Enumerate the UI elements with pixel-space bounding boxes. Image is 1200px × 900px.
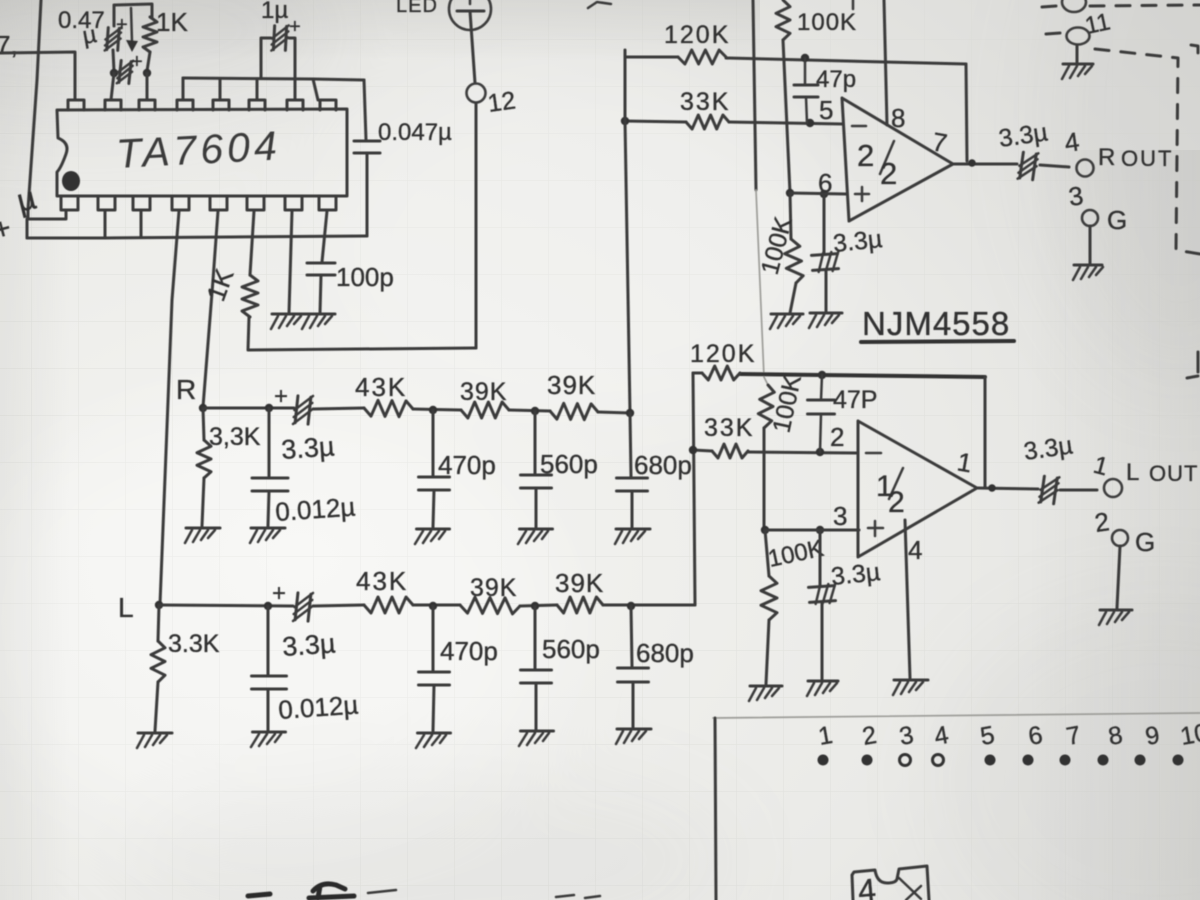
- node 560p L: [531, 602, 539, 610]
- node 470p L: [429, 602, 437, 610]
- wire 560p R drop: [534, 411, 537, 474]
- svg-text:43K: 43K: [356, 566, 408, 596]
- ground below 3.3µ L: [807, 681, 838, 696]
- wire R chain seg3: [413, 409, 461, 410]
- svg-text:43K: 43K: [355, 372, 407, 402]
- ground below 470p L: [416, 733, 451, 748]
- resistor 100K L lower vertical: [765, 530, 769, 576]
- svg-text:+: +: [274, 383, 288, 410]
- capacitor electrolytic small between nodes: [117, 59, 133, 84]
- wire left-edge horizontal to pin1 top: [0, 52, 75, 100]
- capacitor 3.3µ L series electrolytic: [293, 591, 313, 623]
- resistor 3.3K L vertical: [158, 605, 159, 641]
- svg-text:OUT: OUT: [1149, 461, 1198, 486]
- wire 120K row R: [625, 56, 678, 59]
- rail bias vertical R section: [753, 0, 756, 190]
- capacitor 3.3µ L electrolytic to ground: [808, 584, 836, 605]
- svg-text:TA7604: TA7604: [115, 122, 282, 177]
- wire top bus corner down to 0.047µ: [364, 80, 366, 140]
- wire 33K row L: [693, 450, 712, 451]
- wire 470p R to ground: [433, 490, 434, 527]
- node 33K/pin2 L: [816, 448, 824, 456]
- capacitor 3.3µ R electrolytic to ground: [811, 252, 839, 273]
- svg-text:3.3µ: 3.3µ: [281, 628, 336, 662]
- resistor 120K R: [678, 50, 726, 64]
- wire stub pin5 top: [219, 79, 222, 100]
- node at 0.47µ bottom: [110, 69, 118, 77]
- svg-text:2: 2: [830, 422, 844, 452]
- svg-text:4: 4: [908, 535, 922, 565]
- resistor 1K below IC vertical: [242, 275, 258, 317]
- wire pin3 bottom to bus: [140, 211, 143, 237]
- svg-text:R: R: [176, 374, 196, 405]
- stray mark top middle: [588, 2, 611, 8]
- terminal dots row: [818, 755, 829, 766]
- wire top bus y78 pins 4-8: [183, 78, 364, 80]
- resistor 43K L: [364, 597, 413, 613]
- wire loop top of 0.47µ/1K: [114, 4, 152, 26]
- svg-text:120K: 120K: [664, 21, 730, 49]
- capacitor 47p L: [808, 399, 835, 402]
- stray stub top at x853: [852, 0, 855, 9]
- wire 100p to ground: [320, 275, 321, 313]
- svg-text:560p: 560p: [542, 634, 600, 664]
- node R input: [199, 404, 207, 412]
- wire L chain seg5: [603, 604, 695, 607]
- wire 0.47µ bottom to node: [113, 50, 114, 71]
- svg-text:1K: 1K: [156, 7, 188, 37]
- wire L chain seg3: [413, 604, 460, 607]
- dash before terminal 11: [1046, 33, 1060, 34]
- svg-text:L: L: [118, 592, 134, 623]
- wire left column L: [693, 373, 695, 605]
- dashed corner right edge lower: [1187, 352, 1198, 378]
- ground below 0.012µ R: [250, 528, 285, 543]
- wire R chain seg1: [203, 407, 294, 410]
- capacitor 680p L: [618, 667, 649, 670]
- wire L chain seg2: [313, 605, 364, 606]
- wire 560p L to ground: [535, 683, 538, 729]
- svg-text:3.3µ: 3.3µ: [832, 225, 884, 258]
- wire feedback R down to output: [966, 64, 967, 161]
- underline NJM4558: [861, 341, 1014, 342]
- capacitor 560p R: [521, 474, 552, 477]
- wire 47p stubs R: [804, 58, 807, 85]
- svg-text:120K: 120K: [690, 340, 756, 368]
- wire 47p stubs L: [821, 375, 822, 400]
- wire G R to ground: [1089, 226, 1092, 263]
- node left column 33K R: [621, 117, 629, 125]
- wire 1µ right leg to pin7 top: [289, 38, 295, 100]
- node at 1K bottom: [143, 69, 151, 77]
- svg-text:3.3µ: 3.3µ: [280, 431, 335, 465]
- wire pin5-bottom through bus to node R: [203, 211, 218, 407]
- wire 680p L to ground: [632, 682, 635, 727]
- node output R: [968, 159, 976, 167]
- capacitor 100p: [307, 262, 335, 265]
- svg-text:100K: 100K: [797, 9, 857, 36]
- svg-text:OUT: OUT: [1121, 146, 1173, 171]
- wire 3.3µ L to ground: [821, 602, 824, 679]
- resistor 120K L: [702, 366, 740, 380]
- stray dark mark bottom left: [313, 884, 345, 891]
- capacitor 47p R: [794, 84, 818, 87]
- wire pin4 L down to ground: [905, 520, 910, 678]
- arrow adjustment pointing down: [131, 8, 132, 42]
- ground below 100K L: [749, 686, 782, 701]
- ground below 560p R: [518, 529, 553, 544]
- capacitor 3.3µ L output electrolytic: [1039, 475, 1060, 505]
- capacitor 0.012µ R: [252, 477, 288, 480]
- svg-text:39K: 39K: [547, 370, 596, 400]
- svg-text:470p: 470p: [438, 450, 496, 480]
- terminal R OUT circle: [1077, 160, 1094, 177]
- wire 3.3µ L drop: [819, 530, 822, 585]
- node 33K/pin5 R: [806, 119, 814, 127]
- wire 470p R drop: [432, 410, 435, 476]
- node 0.012 R junction: [265, 404, 273, 412]
- wire pin6 R: [790, 193, 846, 194]
- wire bottom box left edge: [715, 718, 716, 900]
- wire stub pin4 top: [182, 78, 185, 100]
- ground below G L: [1099, 610, 1132, 625]
- svg-text:470p: 470p: [440, 636, 498, 666]
- svg-text:39K: 39K: [555, 568, 604, 598]
- capacitor 0.012µ L: [252, 675, 287, 678]
- wire 3.3µ R drop: [823, 194, 826, 253]
- minus sign pin5 R: [852, 125, 866, 128]
- wire terminal 12 down to corner: [475, 103, 478, 348]
- wire L chain seg1: [159, 605, 293, 606]
- wire output R: [953, 163, 1017, 166]
- wire output L: [977, 488, 1038, 489]
- wire 3.3µ R to ground: [825, 270, 828, 312]
- wire G L to ground: [1117, 546, 1120, 608]
- resistor 33K R: [686, 115, 729, 129]
- dashed wire from terminal 10: [1090, 5, 1200, 6]
- wire stub pin6 top: [256, 79, 259, 100]
- node pin3 junction left: [761, 526, 769, 534]
- svg-text:3.3K: 3.3K: [168, 630, 220, 658]
- wire left column R from 120K down to filter node: [625, 50, 630, 413]
- stray dash bottom left small: [248, 894, 270, 896]
- transistor LED indicator circle: [449, 0, 491, 30]
- ground below 100p: [302, 314, 335, 329]
- wire LED down to terminal 12: [470, 11, 475, 83]
- svg-text:G: G: [1107, 205, 1127, 235]
- wire pin8 power line R: [884, 0, 887, 125]
- rail bias vertical L section: [764, 377, 768, 385]
- wire pin6-bottom down with 1K to LED line: [250, 211, 254, 275]
- node 680p R chain end: [626, 409, 634, 417]
- wire 0.012µ L to ground: [267, 689, 270, 730]
- resistor 3.3K R vertical: [203, 408, 204, 440]
- svg-text:7,: 7,: [0, 30, 18, 60]
- bottom bus wire y236: [27, 236, 367, 238]
- capacitor 470p R: [419, 476, 450, 479]
- svg-text:4: 4: [856, 872, 877, 900]
- ground below 680p R: [615, 529, 650, 544]
- plus sign pin6 R: [855, 193, 869, 196]
- svg-text:NJM4558: NJM4558: [862, 305, 1010, 342]
- svg-text:39K: 39K: [470, 574, 517, 602]
- svg-text:+: +: [116, 14, 128, 36]
- ground below 470p R: [415, 529, 450, 544]
- svg-text:+: +: [289, 16, 301, 38]
- resistor 100K L upper vertical: [758, 385, 774, 428]
- resistor 100K R lower vertical: [790, 193, 791, 239]
- svg-text:3: 3: [833, 501, 847, 531]
- svg-text:3,3K: 3,3K: [209, 423, 261, 451]
- node 120K/47p junction L: [818, 371, 826, 379]
- resistor 33K L: [712, 444, 748, 458]
- resistor 100K top rail: [776, 0, 790, 40]
- ground below pin4 L: [893, 680, 928, 695]
- node 560p R: [531, 407, 539, 415]
- ground below 0.012µ L: [251, 732, 286, 747]
- svg-text:+: +: [131, 51, 143, 73]
- svg-text:47p: 47p: [816, 66, 856, 93]
- svg-text:R: R: [1098, 144, 1115, 171]
- wire pin8 bottom to 100p: [322, 211, 327, 262]
- terminal L OUT circle: [1104, 479, 1122, 497]
- ground below 100K R: [770, 314, 803, 329]
- svg-text:39K: 39K: [460, 378, 507, 406]
- ground below 560p L: [519, 731, 554, 746]
- wire 0.012µ R to ground: [268, 491, 269, 526]
- capacitor 3.3µ R output electrolytic: [1018, 151, 1039, 181]
- wire left bus jog vertical: [26, 219, 29, 238]
- svg-text:680p: 680p: [634, 450, 692, 480]
- wire R chain seg5: [598, 412, 630, 413]
- wire 680p R to ground: [631, 491, 634, 527]
- wire pin3 L: [765, 529, 859, 532]
- wire 1K bottom to node: [147, 52, 150, 71]
- terminal G R circle: [1082, 210, 1098, 226]
- wire 0.012µ R drop: [268, 408, 271, 477]
- svg-text:12: 12: [486, 86, 517, 118]
- terminal 10 circle top right: [1062, 0, 1086, 12]
- ground below G R: [1073, 265, 1103, 280]
- svg-text:680p: 680p: [636, 638, 694, 668]
- svg-text:10: 10: [1178, 719, 1200, 751]
- wire 33K row R: [625, 121, 686, 122]
- svg-text:LED: LED: [396, 0, 438, 17]
- svg-text:100p: 100p: [336, 262, 394, 292]
- IC U3 partial body bottom: [852, 866, 929, 900]
- wire R chain seg4: [509, 410, 550, 411]
- wire 0.047µ bottom to bus: [366, 153, 369, 236]
- wire terminal 11 to ground: [1076, 45, 1079, 63]
- resistor R 1K vertical: [143, 17, 157, 52]
- minus sign pin2 L: [866, 452, 881, 455]
- plus sign pin3 L: [868, 527, 883, 530]
- capacitor 0.47µ electrolytic: [105, 27, 122, 52]
- resistor 43K R: [364, 400, 413, 416]
- svg-text:L: L: [1126, 459, 1139, 486]
- capacitor 3.3µ R series electrolytic: [293, 394, 313, 426]
- wire 0.012µ L drop: [267, 606, 270, 675]
- op-amp U2b 1/2 triangle: [858, 421, 977, 557]
- svg-text:3.3µ: 3.3µ: [830, 558, 882, 591]
- wire 120K row L: [693, 372, 702, 375]
- wire 680p L drop: [631, 606, 632, 667]
- wire 470p L to ground: [433, 685, 434, 731]
- terminal 11 circle: [1067, 28, 1090, 45]
- wire 470p L drop: [432, 606, 435, 671]
- svg-text:33K: 33K: [680, 88, 730, 116]
- svg-text:0.047µ: 0.047µ: [378, 119, 452, 146]
- node 0.012 L junction: [264, 602, 272, 610]
- node pin3 junction right: [816, 526, 824, 534]
- wire 680p R drop: [630, 413, 631, 477]
- node pin6 junction right: [820, 190, 828, 198]
- IC U1 TA7604 body with pins: [57, 100, 347, 210]
- node output L: [988, 484, 996, 492]
- svg-text:33K: 33K: [704, 414, 754, 442]
- node 120K/47p junction R: [801, 54, 809, 62]
- svg-text:0.012µ: 0.012µ: [274, 491, 356, 527]
- wire 560p L drop: [534, 606, 537, 669]
- wire 560p R to ground: [535, 488, 538, 527]
- svg-text:0.012µ: 0.012µ: [277, 689, 359, 725]
- wire pin7 bottom to ground: [289, 211, 292, 313]
- svg-text:2: 2: [880, 156, 897, 191]
- ground below 3.3µ R: [809, 313, 842, 328]
- capacitor 470p L: [419, 671, 450, 674]
- wire 1µ left leg: [261, 38, 271, 78]
- node 470p R: [429, 406, 437, 414]
- pin-1 dot of TA7604: [62, 171, 80, 191]
- node pin6 junction left: [786, 189, 794, 197]
- ground below pin7: [271, 314, 302, 329]
- svg-text:2: 2: [857, 138, 874, 173]
- dashed wire from terminal 11 right and down: [1095, 49, 1200, 254]
- capacitor 680p R: [617, 477, 648, 480]
- svg-text:G: G: [1135, 527, 1155, 557]
- ground below terminal 11: [1062, 64, 1093, 79]
- resistor 39K L second: [557, 597, 603, 613]
- stray small marks bottom middle: [556, 895, 574, 897]
- terminal 12 circle: [467, 84, 486, 103]
- wire node to IC pin2 top: [111, 73, 114, 100]
- svg-text:560p: 560p: [540, 449, 598, 479]
- capacitor 1µ electrolytic: [271, 25, 288, 52]
- terminal G L circle: [1112, 530, 1128, 546]
- node L input: [155, 601, 163, 609]
- resistor 39K R second: [550, 403, 598, 419]
- svg-text:2: 2: [888, 486, 905, 519]
- wire pin2 bottom to bus: [104, 211, 107, 238]
- svg-text:5: 5: [819, 95, 833, 125]
- wire feedback L down: [984, 377, 987, 487]
- resistor 39K L first: [460, 597, 520, 614]
- capacitor 0.047µ: [354, 140, 380, 143]
- wire node to IC pin3 top: [146, 73, 149, 100]
- wire stub pin8 top: [313, 79, 318, 100]
- op-amp U2a 2/2 triangle: [842, 98, 953, 221]
- wire bottom box top edge: [713, 713, 1200, 718]
- capacitor 560p L: [521, 669, 552, 672]
- ground below 3.3K R: [185, 528, 220, 543]
- wire pin4-bottom long left rail to L node: [160, 211, 179, 604]
- svg-text:1µ: 1µ: [261, 0, 288, 24]
- resistor 39K R first: [461, 402, 509, 418]
- svg-text:47P: 47P: [833, 386, 877, 414]
- wire R chain seg2: [313, 408, 364, 409]
- ground below 680p L: [616, 729, 651, 744]
- node 680p L chain end: [627, 602, 635, 610]
- ground below 3.3K L: [137, 733, 172, 748]
- svg-text:+: +: [272, 580, 286, 607]
- wire tall left line from top to pin1 bottom loop: [28, 0, 66, 219]
- dashed corner right edge: [1191, 45, 1198, 62]
- node 33K column L: [689, 446, 697, 454]
- wire L chain seg4: [520, 605, 557, 606]
- wire 100K top to pin6 node: [783, 40, 790, 193]
